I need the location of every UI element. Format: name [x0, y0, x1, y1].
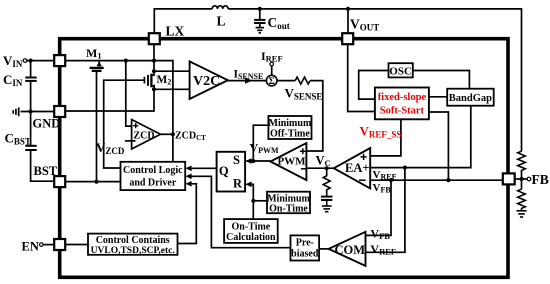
latch SR: [217, 152, 246, 192]
transistor M2: [144, 71, 155, 89]
svg-text:EN: EN: [22, 240, 39, 254]
svg-text:L: L: [217, 14, 226, 29]
wire Min Off-Time to S node: [253, 125, 268, 161]
svg-text:PWM: PWM: [277, 155, 306, 167]
wire BST pad to control logic: [65, 181, 120, 183]
node R junction: [251, 199, 255, 203]
box fixed-slope Soft-Start: [375, 88, 429, 120]
wire Vsense down to PWM plus input: [306, 81, 322, 151]
wire OSC right to bandgap: [413, 71, 470, 89]
svg-text:LX: LX: [166, 24, 185, 39]
box Control Contains: [88, 234, 178, 255]
arrow into S: [245, 158, 251, 164]
wire main rail Vin pad to corner down to control logic: [65, 61, 172, 162]
pin Iref circle: [270, 62, 274, 66]
svg-text:Calculation: Calculation: [226, 232, 276, 243]
svg-text:ZCD: ZCD: [134, 131, 155, 142]
svg-text:FB: FB: [532, 172, 549, 187]
wire Vin pin to pad: [27, 60, 54, 62]
svg-text:Pre-: Pre-: [296, 238, 314, 249]
wire sigma to resistor: [277, 80, 295, 82]
svg-text:OSC: OSC: [389, 66, 412, 78]
svg-text:On-Time: On-Time: [269, 204, 308, 215]
wire ground to GND pad: [21, 111, 55, 113]
svg-text:EA+: EA+: [345, 161, 370, 175]
wire latch R input: [247, 184, 254, 219]
wire soft-start to bandgap: [429, 96, 447, 98]
inductor L: [212, 6, 228, 9]
pad BST: [54, 176, 65, 187]
capacitor Cbst: [25, 112, 54, 182]
node Vout junction: [346, 7, 350, 11]
svg-text:GND: GND: [33, 117, 61, 131]
wire COM output to prebias: [319, 248, 329, 250]
box Pre-biased: [291, 235, 320, 260]
svg-text:Σ: Σ: [269, 77, 275, 87]
wire soft-start bottom to EA plus: [370, 119, 401, 156]
wire M2 drain to V2C upper input: [154, 70, 190, 72]
wire Vout riser: [347, 9, 349, 34]
wire OSC left to soft-start: [359, 71, 389, 100]
comparator COM: [329, 232, 366, 266]
comparator PWM: [270, 143, 306, 180]
arrow I_SENSE: [245, 77, 252, 83]
svg-text:Control Contains: Control Contains: [96, 235, 170, 246]
svg-text:R: R: [233, 177, 243, 191]
arrow into R: [245, 182, 251, 188]
svg-text:UVLO,TSD,SCP,etc.: UVLO,TSD,SCP,etc.: [91, 246, 175, 256]
wire top rail L to Vout corner: [228, 9, 521, 151]
resistor Vsense: [295, 77, 310, 84]
transistor M1: [90, 61, 104, 71]
node GND/Cin/Cbst junction: [29, 109, 33, 113]
arrow prebias into control logic: [185, 174, 191, 180]
wire EA output Vc to PWM minus: [306, 167, 333, 169]
svg-text:biased: biased: [291, 249, 319, 260]
pad VOUT: [342, 33, 353, 44]
svg-text:Control Logic: Control Logic: [123, 165, 183, 176]
wire R node to Min On-Time: [253, 200, 267, 202]
node Cout junction: [258, 7, 262, 11]
node BST / M1 gate junction: [94, 180, 98, 184]
wire M1 gate down to BST line: [96, 72, 98, 182]
box Control Logic and Driver: [121, 162, 186, 190]
box BandGap: [447, 89, 494, 106]
node Vc junction: [325, 166, 329, 170]
svg-text:BandGap: BandGap: [449, 93, 492, 104]
op-amp V2C: [190, 61, 228, 99]
svg-text:and Driver: and Driver: [129, 178, 177, 189]
pad GND: [54, 106, 65, 117]
wire Vfb down to COM plus: [366, 180, 392, 235]
pin EN circle: [40, 243, 44, 247]
box On-Time Calculation: [224, 219, 278, 243]
svg-text:Soft-Start: Soft-Start: [380, 105, 425, 116]
node FB divider junction: [519, 177, 523, 181]
svg-text:Off-Time: Off-Time: [270, 129, 310, 140]
wire resistor to FB node: [521, 170, 523, 189]
box Minimum Off-Time: [268, 116, 311, 139]
wire Vref down to COM minus: [366, 168, 405, 253]
wire Iref to sigma: [271, 66, 273, 76]
resistor FB bottom: [518, 189, 526, 210]
node Vfb-COM junction: [389, 178, 393, 182]
node Vfb-softstart junction: [446, 178, 450, 182]
wire prebias to control logic: [191, 176, 291, 247]
pad LX: [149, 33, 160, 44]
wire EN pad to control contains: [65, 244, 88, 246]
wire ZCD plus input up to rail: [126, 61, 132, 127]
svg-text:Minimum: Minimum: [269, 118, 312, 129]
wire M2 source down to GND pad: [65, 89, 154, 111]
arrow contains into control logic: [185, 181, 191, 187]
svg-text:V2C: V2C: [193, 74, 220, 89]
wire FB pad to divider: [515, 178, 528, 180]
node ZCD output junction: [171, 132, 175, 136]
comparator ZCD: [132, 120, 161, 150]
resistor FB top: [518, 151, 526, 170]
node Vref junction: [403, 166, 407, 170]
wire M2 source to V2C lower input: [154, 88, 190, 90]
wire LX pad down to M2 drain: [153, 44, 155, 71]
svg-text:Q: Q: [219, 164, 229, 178]
capacitor Cout: [254, 9, 265, 27]
capacitor compensation: [321, 197, 332, 206]
node M2 drain junction: [152, 69, 156, 73]
pin FB circle: [527, 177, 531, 181]
label ZCD plus: [133, 123, 138, 128]
error amp EA: [334, 148, 370, 188]
node M2 source junction: [152, 87, 156, 91]
ground below Cout: [256, 28, 264, 33]
wire soft-start output to Vfb line: [429, 112, 449, 180]
svg-text:S: S: [233, 153, 240, 167]
summing node sigma: [266, 75, 277, 86]
node S junction: [251, 159, 255, 163]
wire ZCD output to vertical: [161, 133, 173, 135]
wire ZCD minus stub: [125, 140, 136, 142]
wire Vout pad down into chip to soft-start: [348, 43, 375, 111]
ground FB divider: [517, 211, 527, 217]
ground compensation: [322, 206, 332, 212]
node LX rail junction: [152, 59, 156, 63]
capacitor Cin: [25, 61, 36, 112]
wire I_SENSE V2C to sigma: [228, 80, 267, 82]
arrow Q into control logic: [185, 166, 191, 172]
node M1 drain junction: [124, 59, 128, 63]
wire M2 gate lead to control logic: [104, 80, 145, 168]
box Minimum On-Time: [267, 192, 310, 214]
wire PWM output to latch S: [247, 160, 271, 162]
wire control contains to control logic: [178, 184, 197, 244]
wire Vfb line EA to FB pad: [370, 179, 503, 181]
wire Vref bandgap to EA: [370, 106, 471, 168]
pad FB: [503, 173, 515, 184]
wire top rail LX to L: [154, 9, 212, 44]
svg-text:COM: COM: [335, 243, 366, 257]
pad Vin: [54, 55, 65, 66]
ground symbol left: [13, 107, 19, 116]
svg-text:On-Time: On-Time: [232, 222, 271, 233]
wire EN pin to pad: [43, 244, 54, 246]
pin Vin circle: [23, 59, 27, 63]
box OSC: [389, 63, 413, 77]
resistor compensation: [323, 168, 330, 196]
IC outline border: [60, 39, 508, 278]
pad EN: [54, 239, 65, 250]
node Vin/Cin junction: [29, 59, 33, 63]
wire latch Q to control logic: [191, 167, 217, 169]
svg-text:fixed-slope: fixed-slope: [378, 92, 427, 103]
